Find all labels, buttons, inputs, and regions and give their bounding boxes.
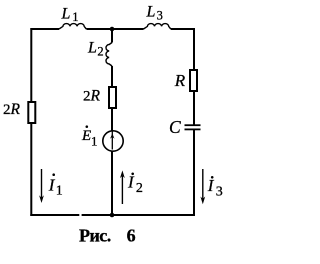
wire middle between L2 and resistor [111,66,113,87]
svg-text:3: 3 [216,184,223,199]
wire right vertical upper [193,28,195,70]
wire bottom-right segment [82,214,195,216]
inductor L1 [59,24,86,29]
label R [174,71,186,90]
svg-text:2: 2 [3,102,11,118]
inductor L3 [144,24,171,29]
svg-text:L: L [146,4,156,21]
wire middle between resistor and source [111,108,113,132]
wire middle lower [111,151,113,216]
svg-text:2: 2 [97,45,103,59]
source E1 arrow [110,131,114,149]
svg-text:Рис.: Рис. [79,226,111,246]
node top junction [110,27,115,32]
wire right between R and C [193,91,195,125]
current arrow I1 [39,169,44,203]
svg-text:1: 1 [72,10,78,24]
label L2 [87,39,104,58]
wire top-left horizontal [30,28,59,30]
svg-text:I: I [127,173,135,192]
svg-text:I: I [207,176,215,195]
label I3 [207,176,223,200]
svg-text:3: 3 [157,8,163,22]
wire top-right horizontal [171,28,195,30]
svg-text:R: R [10,101,21,118]
label I2 [127,173,143,196]
capacitor C [185,125,201,129]
label L1 [61,6,79,25]
label 2R middle [83,88,101,105]
label E1 [81,125,98,148]
wire right lower [193,130,195,216]
svg-text:R: R [90,88,101,105]
resistor R [190,70,197,91]
label L3 [146,4,163,23]
svg-text:R: R [174,71,186,90]
svg-text:L: L [87,39,97,56]
inductor L2 [106,43,112,67]
resistor 2R left [28,102,35,123]
label I1 [48,173,63,198]
wire top-middle horizontal [86,28,143,30]
node bottom junction [110,213,115,218]
wire bottom-left segment [30,214,79,216]
svg-text:2: 2 [136,181,143,196]
caption Рис. 6 [79,226,136,246]
svg-text:I: I [48,175,56,194]
resistor 2R middle [109,87,116,108]
svg-text:2: 2 [83,89,91,105]
label C [169,117,181,137]
label 2R left [3,101,21,118]
wire left vertical lower [30,123,32,216]
wire left vertical upper [30,28,32,102]
svg-text:E: E [81,128,91,144]
current arrow I2 [120,170,125,204]
svg-text:6: 6 [127,226,136,246]
wire middle upper stub [111,29,113,43]
svg-text:1: 1 [56,184,63,199]
svg-text:L: L [61,6,71,23]
current arrow I3 [200,169,205,204]
source E1 circle [103,131,123,151]
svg-text:1: 1 [91,133,98,148]
svg-text:C: C [169,117,181,137]
